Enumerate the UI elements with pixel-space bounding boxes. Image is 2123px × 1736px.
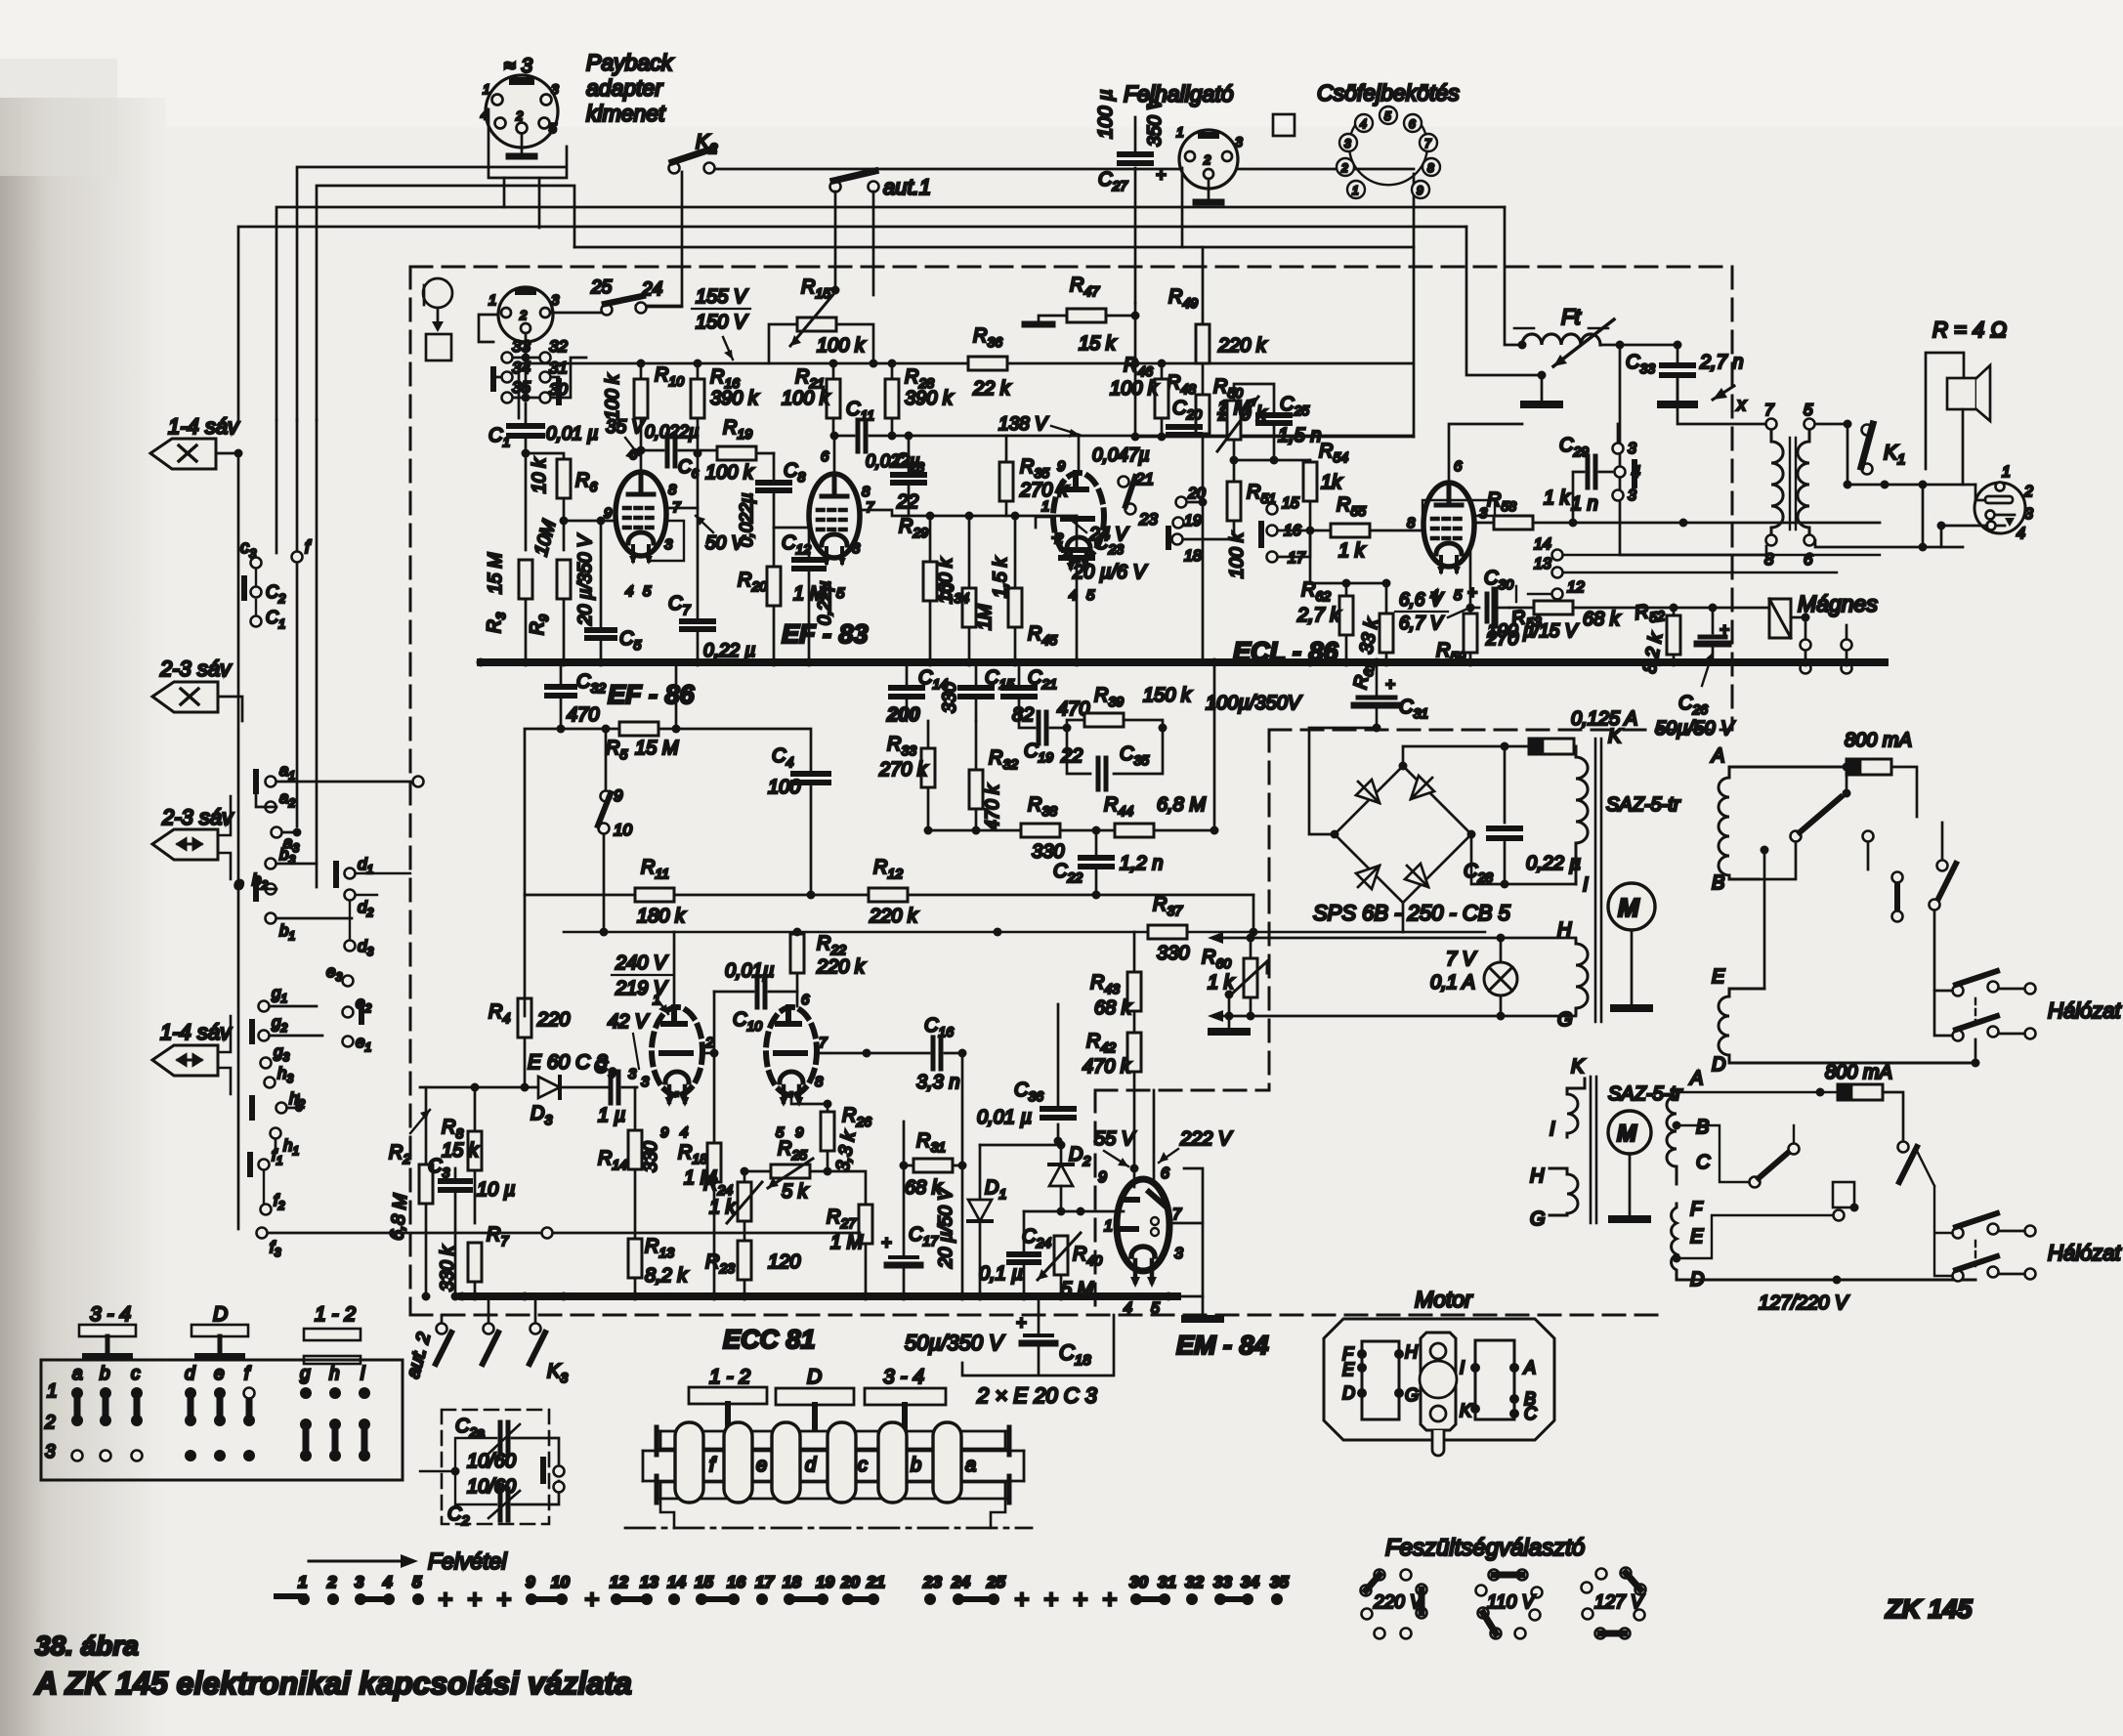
contact column d1 d2 d3 <box>345 868 356 879</box>
svg-text:2: 2 <box>44 1413 56 1433</box>
capacitor C15 330 <box>975 662 978 684</box>
svg-text:K: K <box>1460 1401 1472 1420</box>
motor M circle 2 <box>1608 1111 1651 1154</box>
svg-text:adapter: adapter <box>586 75 663 101</box>
wire ECL triode pins <box>1036 436 1079 528</box>
winding 2 right F-E-D <box>1672 1204 1975 1280</box>
svg-text:100 k: 100 k <box>1227 531 1248 578</box>
svg-text:G: G <box>1557 1009 1573 1031</box>
wire speaker joins <box>1923 485 1975 547</box>
svg-text:2 × E 20 C 3: 2 × E 20 C 3 <box>976 1383 1098 1408</box>
resistor R45 <box>1008 588 1022 627</box>
svg-text:330: 330 <box>940 682 960 713</box>
svg-text:1,5 n: 1,5 n <box>1278 425 1321 446</box>
svg-text:F: F <box>1690 1199 1704 1220</box>
connector mic DIN <box>498 287 553 342</box>
Hálózat switches bottom <box>1953 1228 1964 1239</box>
svg-text:100 k: 100 k <box>817 335 866 357</box>
resistor R43 68k <box>1127 972 1141 1011</box>
capacitor C33 2.7n <box>1662 362 1693 368</box>
svg-text:5 k: 5 k <box>782 1181 809 1203</box>
pin labels payback <box>481 81 559 136</box>
capacitor C25 <box>1258 412 1290 418</box>
resistor R61 33k <box>1380 614 1393 653</box>
svg-text:4: 4 <box>1360 117 1367 131</box>
switch K1 <box>1861 424 1873 475</box>
capacitor C21 82 <box>1018 662 1021 684</box>
wire 30 block to right <box>551 358 586 398</box>
wire G line with arrow <box>1219 1015 1576 1018</box>
svg-text:a: a <box>965 1455 976 1476</box>
svg-text:330: 330 <box>1032 841 1064 863</box>
wire R44 right up <box>1213 662 1216 830</box>
svg-text:8: 8 <box>1407 515 1416 531</box>
wire column R48 down <box>1202 502 1205 662</box>
svg-text:25: 25 <box>986 1573 1005 1591</box>
svg-text:2: 2 <box>704 1035 714 1051</box>
transformer SAZ-5-tr winding K-I <box>1576 746 1588 884</box>
diode D3 <box>538 1077 560 1098</box>
tube ECC81 triode 1 <box>652 1007 702 1107</box>
resistor R10 <box>634 379 648 418</box>
svg-text:C: C <box>1696 1152 1711 1173</box>
svg-text:8: 8 <box>668 482 677 498</box>
svg-text:D: D <box>807 1366 822 1388</box>
resistor R47 <box>1067 309 1106 322</box>
svg-text:9: 9 <box>660 1124 669 1141</box>
connector payback DIN socket <box>486 75 567 228</box>
resistor R46 <box>1155 379 1168 418</box>
wire headphone drop <box>1181 168 1184 247</box>
resistor R55 <box>1331 524 1370 537</box>
resistor R53 <box>1534 601 1573 614</box>
svg-text:5: 5 <box>1454 587 1463 604</box>
svg-text:3: 3 <box>2024 506 2033 523</box>
ground Ft <box>1541 375 1544 402</box>
potentiometer R25 5k <box>771 1164 810 1178</box>
diode D2 <box>1060 1141 1063 1164</box>
fuse 800mA bottom <box>1838 1084 1883 1100</box>
svg-text:3: 3 <box>852 540 861 557</box>
svg-text:2,7 n: 2,7 n <box>1699 352 1743 373</box>
capacitor C4 100 <box>676 729 811 770</box>
svg-text:50 V: 50 V <box>705 533 745 554</box>
svg-text:2: 2 <box>519 308 528 322</box>
svg-text:E: E <box>1690 1226 1704 1248</box>
ground headphone <box>1196 199 1221 206</box>
switch matrix contacts a-i rows 1-3 <box>71 1387 370 1461</box>
svg-text:10 µ: 10 µ <box>477 1179 515 1201</box>
wire EM84 ground <box>1202 1223 1205 1317</box>
capacitor C16 <box>933 1037 941 1069</box>
svg-text:+: + <box>1720 620 1729 639</box>
svg-text:1 k: 1 k <box>1338 540 1366 562</box>
svg-text:3: 3 <box>1174 1246 1183 1262</box>
transformer right A-B winding <box>1719 767 1847 879</box>
svg-text:8: 8 <box>862 484 870 500</box>
svg-text:g: g <box>300 1364 311 1384</box>
wire mic to 25 <box>479 313 602 358</box>
svg-text:15 k: 15 k <box>442 1140 480 1162</box>
svg-text:6: 6 <box>1161 1165 1169 1182</box>
svg-text:220: 220 <box>536 1009 570 1031</box>
svg-text:24: 24 <box>641 279 662 300</box>
fuse 800mA top <box>1847 759 1891 775</box>
resistor R54 <box>1303 462 1317 501</box>
wire ECL g2 <box>1422 500 1495 516</box>
arrow R2 <box>410 1110 430 1133</box>
resistor R59 <box>1464 614 1477 653</box>
wire bus L2 <box>317 186 574 420</box>
svg-text:2: 2 <box>1203 152 1211 167</box>
svg-text:20: 20 <box>840 1573 860 1591</box>
label Felvétel with arrow <box>309 1560 403 1563</box>
wire bridge left <box>1309 728 1377 834</box>
resistor R29 <box>923 562 937 601</box>
pin labels DIN out <box>2002 464 2033 542</box>
svg-text:138 V: 138 V <box>998 414 1049 435</box>
svg-text:1 k: 1 k <box>1544 487 1571 509</box>
svg-text:31: 31 <box>549 359 568 377</box>
svg-text:0,22 µ: 0,22 µ <box>703 641 755 661</box>
svg-text:3: 3 <box>45 1442 56 1462</box>
capacitor C32 <box>560 662 563 684</box>
connector pair small <box>1894 885 1900 909</box>
resistor R6 10k <box>526 453 564 459</box>
svg-text:3: 3 <box>1628 441 1636 457</box>
wire D3 line <box>420 1086 637 1089</box>
svg-text:4: 4 <box>1124 1300 1132 1317</box>
motor pins left block <box>1357 1349 1519 1418</box>
svg-text:x: x <box>1736 395 1747 414</box>
resistor R19 <box>717 446 756 460</box>
wire bus L1 <box>297 167 1414 420</box>
svg-text:30: 30 <box>1129 1573 1148 1591</box>
wire aut.1 drops <box>835 191 873 295</box>
resistor R48 <box>1196 395 1210 434</box>
contact column g1 g2 g3 h3 h2 h1 <box>259 1001 270 1012</box>
svg-text:K: K <box>1608 726 1623 747</box>
svg-text:A: A <box>1711 745 1724 767</box>
resistor R49 <box>1196 324 1210 363</box>
svg-text:6,6 V: 6,6 V <box>1399 590 1445 611</box>
resistor R12 220k <box>869 888 908 902</box>
svg-text:ECL - 86: ECL - 86 <box>1233 637 1339 666</box>
svg-text:6: 6 <box>821 448 829 465</box>
main lower bus <box>462 1292 1177 1300</box>
resistor R39 150k <box>1084 713 1124 727</box>
switch aut.2 <box>437 1324 447 1334</box>
svg-text:17: 17 <box>755 1573 775 1591</box>
capacitor C24 <box>1023 1211 1026 1251</box>
svg-text:0,01 µ: 0,01 µ <box>546 424 598 445</box>
svg-text:1 - 2: 1 - 2 <box>315 1303 356 1326</box>
svg-text:5: 5 <box>549 120 557 136</box>
svg-text:3 - 4: 3 - 4 <box>90 1303 131 1326</box>
svg-text:SAZ-5-tr: SAZ-5-tr <box>1606 794 1681 816</box>
head body <box>630 1427 1036 1528</box>
svg-text:800 mA: 800 mA <box>1845 730 1912 751</box>
svg-text:+: + <box>438 1585 452 1614</box>
svg-text:3: 3 <box>664 536 673 553</box>
wire EM84 pin7 bracket <box>1169 1168 1203 1223</box>
svg-text:0,1 A: 0,1 A <box>1430 972 1475 994</box>
svg-text:15 M: 15 M <box>635 738 679 759</box>
svg-text:82: 82 <box>1012 704 1034 726</box>
svg-text:4: 4 <box>481 106 488 122</box>
tube ECL-86 pentode <box>1423 483 1474 575</box>
svg-text:K: K <box>1571 1056 1586 1078</box>
resistor R42 470k <box>1127 1033 1141 1072</box>
switch matrix box <box>41 1360 403 1480</box>
svg-text:4: 4 <box>382 1573 393 1591</box>
svg-text:1 k: 1 k <box>709 1197 737 1218</box>
svg-text:0,1 µ: 0,1 µ <box>979 1263 1023 1285</box>
svg-text:3 - 4: 3 - 4 <box>883 1366 924 1388</box>
svg-text:1 n: 1 n <box>1571 493 1598 515</box>
terminal strip pin numbers 1-35 <box>298 1573 1289 1591</box>
svg-text:+: + <box>1156 165 1167 185</box>
svg-text:220 k: 220 k <box>816 956 866 978</box>
resistor R22 220k <box>790 934 804 973</box>
svg-text:100: 100 <box>768 777 800 798</box>
switch network 2 <box>1677 1125 1749 1182</box>
svg-text:19: 19 <box>816 1573 834 1591</box>
svg-text:3: 3 <box>1628 487 1636 504</box>
capacitor C5 <box>600 521 603 626</box>
resistor R27 1M <box>828 1171 866 1205</box>
svg-text:30: 30 <box>549 380 568 399</box>
svg-text:3: 3 <box>551 81 559 97</box>
wire vertical from L1 right <box>1413 174 1416 437</box>
svg-text:+: + <box>1016 1313 1027 1333</box>
svg-text:55 V: 55 V <box>1094 1128 1136 1150</box>
svg-text:127 V: 127 V <box>1594 1592 1645 1613</box>
wire Ft to C33 <box>1600 345 1677 469</box>
svg-text:0,125 A: 0,125 A <box>1571 708 1637 730</box>
resistor R7 330k <box>468 1243 482 1282</box>
capacitor C14 200 <box>906 662 909 684</box>
resistor R18 1M <box>707 1143 721 1182</box>
svg-text:Payback: Payback <box>586 50 674 75</box>
svg-text:0,22 µ: 0,22 µ <box>1526 853 1581 874</box>
wire primary bottom <box>1620 469 1766 555</box>
svg-text:B: B <box>1712 872 1724 894</box>
svg-text:150 V: 150 V <box>696 312 748 333</box>
svg-text:10 k: 10 k <box>530 457 550 493</box>
resistor R44 6,8M <box>1115 824 1154 837</box>
rectifier bridge SPS <box>1335 766 1471 903</box>
switch 25 24 <box>602 296 647 316</box>
resistor R38 330 <box>1021 824 1060 837</box>
svg-text:5: 5 <box>1151 1300 1160 1317</box>
capacitor C20 <box>1168 424 1200 430</box>
connector tube socket rosette <box>1337 106 1440 198</box>
ground payback <box>509 153 534 160</box>
svg-text:Mágnes: Mágnes <box>1798 591 1878 616</box>
wire vertical K2 drop <box>636 172 682 306</box>
tube ECL triode <box>1053 473 1104 572</box>
transformer core 2 <box>1590 1077 1592 1223</box>
svg-text:e: e <box>756 1455 767 1476</box>
svg-text:1k: 1k <box>1321 472 1342 493</box>
svg-text:≈ 3: ≈ 3 <box>504 55 532 77</box>
svg-text:1-4 sáv: 1-4 sáv <box>160 1020 233 1044</box>
contact C2 C1 <box>255 569 257 625</box>
speaker <box>1926 353 1990 485</box>
svg-text:18: 18 <box>1184 548 1202 565</box>
svg-text:12: 12 <box>610 1573 628 1591</box>
wire L4 drop to Ft bottom <box>1466 227 1542 375</box>
wire ECL pin 14 13 12 block <box>1552 550 1563 561</box>
lamp 7V 0,1A <box>1484 962 1517 995</box>
connector headphone DIN <box>1179 130 1238 200</box>
svg-text:32: 32 <box>549 337 568 356</box>
capacitor C28 0,22µ <box>1504 746 1507 823</box>
resistor R36 <box>968 357 1007 370</box>
svg-text:222 V: 222 V <box>1179 1128 1233 1150</box>
motor center capsule <box>1421 1333 1456 1430</box>
resistor R23 120 <box>738 1241 751 1280</box>
contacts 33 32 34 31 35 30 <box>493 353 559 403</box>
svg-text:2: 2 <box>515 108 524 123</box>
svg-text:0,022µ: 0,022µ <box>645 422 699 442</box>
fuse 0,125A <box>1529 739 1574 754</box>
svg-text:+: + <box>1014 1585 1029 1614</box>
svg-text:2-3 sáv: 2-3 sáv <box>161 805 234 829</box>
svg-text:E: E <box>1342 1360 1355 1379</box>
svg-text:180 k: 180 k <box>637 906 686 927</box>
switch 9 10 <box>601 791 612 802</box>
svg-text:1,2 n: 1,2 n <box>1120 853 1163 874</box>
svg-text:330: 330 <box>641 1141 661 1172</box>
svg-text:6,7 V: 6,7 V <box>1399 614 1445 634</box>
svg-text:1 M: 1 M <box>793 583 827 605</box>
svg-text:+: + <box>881 1233 892 1252</box>
capacitor C19 470 <box>1039 712 1046 743</box>
capacitor C11 <box>830 432 839 441</box>
svg-text:9: 9 <box>1417 184 1423 197</box>
main HT line <box>519 363 1413 418</box>
resistor R5 15M <box>561 728 619 731</box>
svg-text:B: B <box>1696 1117 1709 1138</box>
svg-text:b: b <box>911 1455 921 1476</box>
svg-text:Csöfejbekötés: Csöfejbekötés <box>1317 80 1460 106</box>
svg-text:kimenet: kimenet <box>586 101 666 126</box>
svg-text:h: h <box>329 1364 340 1384</box>
capacitor C18 <box>1038 1296 1040 1333</box>
capacitor C29 <box>1573 472 1584 523</box>
svg-text:20: 20 <box>1187 486 1206 502</box>
svg-text:13: 13 <box>640 1573 658 1591</box>
svg-text:1 - 2: 1 - 2 <box>709 1366 750 1388</box>
svg-text:470: 470 <box>567 704 599 726</box>
dashed box main <box>410 267 1732 1315</box>
wire grid line EF86 <box>564 520 616 523</box>
svg-text:100µ/350V: 100µ/350V <box>1206 693 1302 714</box>
svg-text:aut.1: aut.1 <box>883 175 931 199</box>
capacitor C26 electrolytic <box>1712 608 1715 633</box>
svg-text:Felvétel: Felvétel <box>428 1548 507 1574</box>
svg-text:800 mA: 800 mA <box>1825 1062 1892 1083</box>
svg-text:18: 18 <box>783 1573 801 1591</box>
wire R12 to down <box>1253 895 1255 932</box>
svg-text:15: 15 <box>1282 495 1299 512</box>
svg-text:7: 7 <box>819 1035 828 1051</box>
svg-text:22: 22 <box>1060 745 1083 767</box>
svg-text:a: a <box>72 1364 83 1384</box>
svg-text:1: 1 <box>1104 1218 1113 1235</box>
svg-text:12: 12 <box>1567 579 1585 596</box>
svg-text:3,3 n: 3,3 n <box>916 1072 959 1093</box>
resistor R14 330 <box>634 1087 637 1130</box>
capacitor C9 <box>611 1072 618 1103</box>
svg-text:5: 5 <box>643 583 652 600</box>
svg-text:b: b <box>100 1364 110 1384</box>
wire bus L4 <box>238 227 1466 420</box>
svg-text:100 k: 100 k <box>782 388 830 409</box>
svg-text:220 k: 220 k <box>1217 335 1267 357</box>
junction dots HT <box>637 360 646 368</box>
svg-text:3: 3 <box>355 1573 364 1591</box>
capacitor C35 22 <box>1067 728 1163 774</box>
svg-text:4: 4 <box>2017 526 2025 542</box>
svg-text:100 µ: 100 µ <box>1095 90 1117 139</box>
resistor R11 180k <box>635 888 674 902</box>
svg-text:4: 4 <box>680 1124 688 1141</box>
svg-text:Motor: Motor <box>1415 1287 1473 1312</box>
junction dots bus top <box>597 517 606 526</box>
contact column a1 a2 a3 b3 b2 b1 <box>256 772 410 924</box>
svg-text:15 M: 15 M <box>486 553 506 594</box>
svg-text:d: d <box>805 1455 817 1476</box>
svg-text:15 k: 15 k <box>1079 333 1117 355</box>
svg-text:4: 4 <box>1069 587 1077 604</box>
svg-text:2: 2 <box>326 1573 337 1591</box>
wire C27 column <box>1134 303 1137 437</box>
svg-text:2-3 sáv: 2-3 sáv <box>159 656 233 681</box>
winding H-G <box>1576 940 1588 1014</box>
svg-text:0,01µ: 0,01µ <box>725 960 774 982</box>
Hálózat switches top <box>1953 986 1964 996</box>
svg-text:H: H <box>1530 1165 1545 1187</box>
switch network right <box>1759 842 1796 879</box>
transformer output windings <box>1771 430 1809 534</box>
svg-text:1: 1 <box>483 81 490 97</box>
svg-text:1 µ: 1 µ <box>598 1105 625 1126</box>
switch right net2 <box>1898 1142 1909 1153</box>
svg-text:e: e <box>234 874 243 893</box>
svg-text:G: G <box>1530 1208 1546 1230</box>
trimmer box C2a C2 <box>442 1410 549 1524</box>
capacitor C23 <box>1076 516 1079 547</box>
potentiometer R60 1k <box>1244 958 1257 997</box>
wire left verticals down <box>238 420 317 1229</box>
inductor Ft <box>1514 319 1614 366</box>
svg-text:D: D <box>1690 1269 1704 1291</box>
svg-text:1: 1 <box>2002 464 2011 481</box>
svg-text:1 k: 1 k <box>1208 972 1235 994</box>
tube EF-86 <box>616 472 666 565</box>
svg-text:390 k: 390 k <box>905 388 954 409</box>
switch K3 <box>531 1324 541 1334</box>
resistor R35 <box>999 462 1013 501</box>
svg-text:155 V: 155 V <box>696 286 748 308</box>
wire H line with arrow <box>1219 937 1576 940</box>
svg-text:50µ/50 V: 50µ/50 V <box>1655 718 1735 740</box>
svg-text:SAZ-5-tr: SAZ-5-tr <box>1608 1083 1683 1105</box>
svg-text:e: e <box>214 1364 225 1384</box>
